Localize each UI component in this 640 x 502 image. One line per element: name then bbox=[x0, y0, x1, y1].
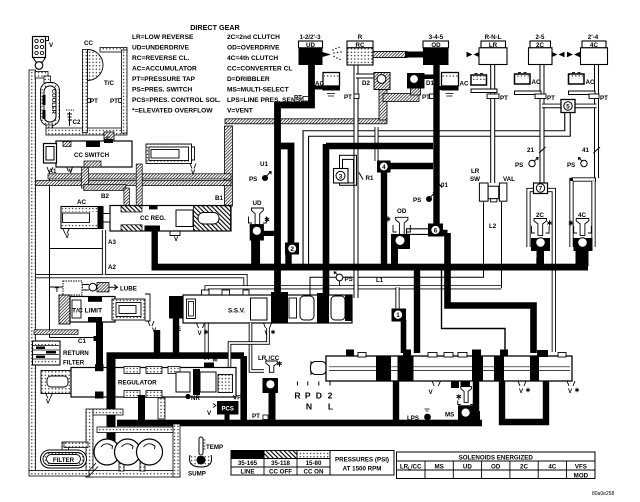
svg-text:R1: R1 bbox=[366, 175, 374, 182]
wire 6box to bar bbox=[440, 233, 448, 264]
valve manual (R P D 2 N L) bbox=[311, 350, 579, 397]
svg-text:CC OFF: CC OFF bbox=[269, 469, 292, 476]
svg-text:A2: A2 bbox=[108, 264, 116, 271]
svg-text:PT: PT bbox=[252, 413, 260, 420]
return filter bbox=[33, 341, 90, 367]
svg-text:RETURN: RETURN bbox=[63, 350, 89, 357]
loop below manual valve right bbox=[502, 381, 546, 422]
vent relief assembly top-left bbox=[33, 37, 55, 70]
svg-text:4C=4th CLUTCH: 4C=4th CLUTCH bbox=[227, 55, 278, 62]
legend left column bbox=[132, 34, 221, 115]
accumulator AC (4C) bbox=[569, 73, 596, 95]
tick 01 on OD line bbox=[437, 182, 442, 188]
wire 4C bracket bbox=[572, 178, 597, 247]
svg-text:3: 3 bbox=[339, 173, 343, 180]
rail junction5 west run to SSV-top channel bbox=[306, 113, 568, 264]
wire circled-1 drop to manual valve bbox=[395, 287, 399, 310]
pressure switch PS (2C) bbox=[515, 157, 539, 169]
svg-text:LRL/CC: LRL/CC bbox=[400, 463, 422, 470]
solenoid OD bbox=[386, 208, 411, 264]
pressure switch PS (OD, dot) bbox=[413, 192, 436, 204]
node PT (UD line) bbox=[294, 95, 302, 102]
solenoid UD bbox=[249, 200, 275, 264]
svg-text:T/C: T/C bbox=[104, 80, 114, 87]
wire OD main line bbox=[433, 65, 439, 229]
svg-text:OD=OVERDRIVE: OD=OVERDRIVE bbox=[227, 45, 280, 52]
svg-text:PRESSURES (PSI): PRESSURES (PSI) bbox=[335, 457, 389, 464]
svg-text:4C: 4C bbox=[548, 463, 556, 470]
svg-text:2: 2 bbox=[328, 391, 333, 401]
wire M spur bbox=[204, 357, 218, 371]
svg-text:7: 7 bbox=[539, 186, 543, 193]
svg-text:V=VENT: V=VENT bbox=[227, 108, 253, 115]
svg-text:R-N-L: R-N-L bbox=[485, 34, 502, 41]
svg-text:PT: PT bbox=[90, 98, 98, 105]
duct CC switch right drop bbox=[136, 164, 142, 206]
duct cross run under CC switch (upper) bbox=[48, 174, 231, 179]
wire UD line crossing bar to SSV bbox=[323, 264, 330, 296]
duct T/C left wall bbox=[83, 50, 88, 133]
duct suction bottom run bbox=[29, 471, 89, 477]
solenoid LR/CC bbox=[258, 355, 282, 420]
cooler bbox=[41, 83, 60, 131]
wire R1 loop bbox=[340, 155, 357, 185]
junction box 2 bbox=[285, 243, 299, 255]
svg-text:4C: 4C bbox=[578, 212, 586, 219]
svg-text:15-80: 15-80 bbox=[306, 460, 322, 467]
wire LR clutch feed bbox=[490, 65, 495, 184]
wire CCREG drop to bar bbox=[151, 229, 157, 264]
wire black RC-OD bbox=[405, 52, 423, 58]
duct CCREG B-run vertical bbox=[225, 126, 233, 206]
valve CC SWITCH bbox=[44, 139, 133, 175]
pressure switch PS (line, circle) bbox=[334, 271, 353, 286]
main pressure bar bbox=[152, 264, 589, 271]
svg-text:2: 2 bbox=[290, 246, 294, 253]
junction box 1 bbox=[392, 309, 407, 322]
svg-text:TEMP: TEMP bbox=[206, 444, 223, 451]
svg-text:B2: B2 bbox=[101, 193, 109, 200]
svg-text:LINE: LINE bbox=[240, 469, 254, 476]
svg-text:L2: L2 bbox=[489, 223, 497, 230]
svg-text:N: N bbox=[306, 402, 312, 412]
wire RC channel down bbox=[354, 65, 359, 298]
solenoid 4C bbox=[569, 212, 593, 266]
svg-text:PCS=PRES. CONTROL SOL.: PCS=PRES. CONTROL SOL. bbox=[132, 97, 221, 104]
valve CC SWITCH spring chamber bbox=[146, 144, 196, 176]
svg-text:CC REG.: CC REG. bbox=[140, 215, 166, 222]
svg-text:AC=ACCUMULATOR: AC=ACCUMULATOR bbox=[132, 66, 197, 73]
svg-text:D: D bbox=[316, 391, 322, 401]
node PT (LR line) bbox=[487, 94, 508, 102]
valve REGULATOR bbox=[41, 364, 236, 405]
svg-text:35-118: 35-118 bbox=[271, 460, 290, 467]
wire 4C to junction 5 bbox=[568, 104, 597, 109]
svg-text:2C: 2C bbox=[520, 463, 528, 470]
node PT (RC line) bbox=[344, 94, 359, 101]
tick 21 on 2C line bbox=[527, 147, 546, 154]
wire E2 gray elbow bar to manual valve bbox=[442, 270, 506, 353]
svg-text:D=DRIBBLER: D=DRIBBLER bbox=[227, 76, 270, 83]
valve LR switch bbox=[470, 168, 515, 202]
wire 2C bracket left bbox=[529, 190, 534, 247]
clutch RC reverse bbox=[347, 34, 373, 65]
wire A1/C1 thin links bbox=[50, 172, 98, 338]
check valve C2 bbox=[66, 110, 81, 126]
dribbler on 4C clutch bbox=[567, 52, 580, 57]
svg-text:2C=2nd CLUTCH: 2C=2nd CLUTCH bbox=[227, 34, 280, 41]
solenoids energized table bbox=[397, 452, 596, 479]
dribbler valve D2 bbox=[362, 73, 390, 90]
svg-text:C1: C1 bbox=[78, 338, 86, 345]
svg-text:CC SWITCH: CC SWITCH bbox=[74, 152, 110, 159]
thermometer TEMP bbox=[199, 437, 223, 455]
junction box 5 bbox=[561, 100, 575, 113]
wire LR valve down-channel to SSV bbox=[310, 202, 484, 296]
svg-text:U1: U1 bbox=[260, 161, 268, 168]
accumulator AC (2C) bbox=[515, 73, 542, 95]
svg-text:6: 6 bbox=[434, 228, 438, 235]
clutch LR R-N-L bbox=[479, 34, 507, 65]
wire upper cross (OD to SSV drop) bbox=[326, 144, 433, 264]
wire 2C solenoid drop to bar bbox=[536, 258, 543, 264]
svg-text:PT: PT bbox=[344, 94, 352, 101]
svg-text:SW: SW bbox=[470, 176, 480, 183]
lube relief bbox=[63, 281, 137, 295]
svg-text:FILTER: FILTER bbox=[63, 360, 85, 367]
svg-text:VAL: VAL bbox=[503, 176, 515, 183]
junction box 4 bbox=[377, 161, 391, 173]
solenoid MS bbox=[445, 381, 478, 424]
svg-text:2-5: 2-5 bbox=[536, 34, 546, 41]
svg-text:41: 41 bbox=[582, 147, 589, 154]
svg-text:PT: PT bbox=[294, 95, 302, 102]
wire 2C valve-feed 7box to manual valve bbox=[548, 190, 554, 352]
svg-text:VFS: VFS bbox=[575, 463, 587, 470]
clutch 4C 2'-4 bbox=[581, 34, 608, 65]
duct left main vertical bbox=[29, 70, 36, 471]
svg-text:PT=PRESSURE TAP: PT=PRESSURE TAP bbox=[132, 76, 196, 83]
solenoid PCS bbox=[207, 395, 241, 421]
duct main hatched run (CC REG to D2) bbox=[225, 119, 387, 124]
solenoid 2C bbox=[531, 212, 552, 266]
wire manual valve drops bbox=[393, 381, 399, 420]
svg-text:PCS: PCS bbox=[222, 407, 234, 413]
svg-text:AC: AC bbox=[586, 79, 595, 86]
dribbler on LR clutch bbox=[467, 52, 480, 57]
clutch UD 1-2/2'-3 bbox=[299, 34, 323, 65]
filter (suction) bbox=[41, 442, 89, 468]
svg-text:VF: VF bbox=[233, 395, 241, 402]
svg-text:MS: MS bbox=[434, 463, 443, 470]
accumulator AC (UD) bbox=[311, 73, 340, 97]
svg-text:PT: PT bbox=[422, 94, 430, 101]
svg-text:NR: NR bbox=[191, 395, 200, 402]
wire regulator to bottom bar bbox=[138, 395, 145, 420]
svg-text:PS: PS bbox=[249, 176, 257, 183]
svg-text:1: 1 bbox=[396, 312, 400, 319]
valve CC REG bbox=[110, 206, 231, 244]
mid distribution bar bbox=[107, 352, 245, 359]
wire bar up-stub left bbox=[154, 330, 160, 353]
svg-text:L1: L1 bbox=[376, 277, 384, 284]
torque converter T/C bbox=[88, 48, 128, 134]
svg-text:80a0e258: 80a0e258 bbox=[592, 491, 614, 497]
dribbler valve D1 bbox=[407, 73, 434, 89]
wire 4C clutch feed bbox=[594, 65, 599, 179]
svg-text:2C: 2C bbox=[536, 212, 544, 219]
svg-text:5: 5 bbox=[566, 104, 570, 111]
svg-text:B1: B1 bbox=[215, 195, 223, 202]
duct cooler return lower band bbox=[34, 330, 78, 335]
svg-text:*=ELEVATED OVERFLOW: *=ELEVATED OVERFLOW bbox=[132, 108, 213, 115]
svg-text:FILTER: FILTER bbox=[53, 457, 75, 464]
junction box 6 bbox=[428, 224, 443, 237]
svg-text:PT: PT bbox=[110, 98, 118, 105]
svg-text:AC: AC bbox=[77, 199, 86, 206]
svg-text:RC=REVERSE CL.: RC=REVERSE CL. bbox=[132, 55, 190, 62]
svg-text:SUMP: SUMP bbox=[188, 471, 206, 478]
svg-text:UD: UD bbox=[253, 200, 262, 207]
svg-text:AC: AC bbox=[532, 79, 541, 86]
svg-text:LR: LR bbox=[471, 168, 480, 175]
duct vent to cooler link bbox=[35, 72, 48, 79]
hatched pipe RC to OD bbox=[373, 52, 407, 58]
valve T/C LIMIT bbox=[59, 294, 157, 334]
node PT (OD line) bbox=[422, 94, 435, 101]
svg-text:SOLENOIDS ENERGIZED: SOLENOIDS ENERGIZED bbox=[459, 455, 534, 462]
svg-text:35-165: 35-165 bbox=[238, 460, 258, 467]
valve SSV body bbox=[169, 290, 352, 337]
svg-text:CC: CC bbox=[84, 40, 93, 47]
clutch 2C 2-5 bbox=[529, 34, 553, 65]
duct D1 foot bbox=[411, 87, 421, 95]
svg-text:A1: A1 bbox=[49, 168, 57, 175]
svg-text:PT: PT bbox=[600, 95, 608, 102]
duct D2-D1 link bbox=[383, 94, 419, 102]
wire 4box cross bbox=[384, 166, 433, 264]
svg-text:MS: MS bbox=[445, 412, 454, 419]
svg-text:PT: PT bbox=[547, 95, 555, 102]
wire E1 elbow bar to valve port bbox=[448, 270, 534, 353]
svg-text:A3: A3 bbox=[108, 239, 116, 246]
duct D2 drop bbox=[379, 88, 387, 120]
wire 2box to bar bbox=[285, 254, 291, 264]
svg-text:LR=LOW REVERSE: LR=LOW REVERSE bbox=[132, 34, 194, 41]
accumulator AC (OD) bbox=[435, 73, 469, 97]
wire bar right drop to PCS bbox=[240, 356, 247, 423]
svg-text:L: L bbox=[328, 402, 333, 412]
node PT (4C line) bbox=[589, 94, 608, 102]
wire A3 channel bbox=[102, 230, 106, 275]
svg-text:AC: AC bbox=[460, 81, 469, 88]
junction box 7 bbox=[534, 183, 548, 194]
wire 4C solenoid drop joins bar end bbox=[576, 251, 588, 266]
wire SSV to LR/CC link bbox=[251, 323, 265, 371]
rail L1 (M-channel east run) bbox=[207, 287, 501, 360]
svg-text:4: 4 bbox=[382, 164, 386, 171]
svg-text:CC=CONVERTER CL: CC=CONVERTER CL bbox=[227, 66, 292, 73]
selector position labels R P D 2 / N L bbox=[294, 382, 333, 412]
wire regulator to pump bbox=[107, 396, 116, 441]
svg-text:MOD: MOD bbox=[574, 472, 589, 479]
wire OD-ball to 6box channel bbox=[407, 229, 431, 235]
tick 41 on 4C line bbox=[582, 147, 600, 154]
svg-text:D1: D1 bbox=[426, 80, 434, 87]
wire RC channel crossing duct bbox=[354, 114, 359, 132]
wire D2-feed channel bbox=[375, 127, 379, 161]
wire V*-to-VF channel bbox=[230, 328, 269, 374]
duct cooler return run bbox=[46, 128, 127, 135]
svg-text:REGULATOR: REGULATOR bbox=[118, 380, 157, 387]
wire 2C clutch feed bbox=[540, 65, 545, 185]
wire bar drop to valve (x417) bbox=[414, 270, 420, 353]
svg-text:P: P bbox=[305, 391, 311, 401]
svg-text:R: R bbox=[294, 391, 301, 401]
rail A2 vent line (left long run) bbox=[34, 276, 246, 291]
svg-text:MS=MULTI-SELECT: MS=MULTI-SELECT bbox=[227, 87, 289, 94]
svg-text:01: 01 bbox=[441, 182, 448, 189]
duct cross run (lower) bbox=[34, 180, 231, 185]
sump pickup SUMP bbox=[188, 455, 212, 478]
accumulator AC (converter, large) bbox=[61, 199, 110, 240]
svg-text:OD: OD bbox=[397, 208, 407, 215]
svg-text:C2: C2 bbox=[73, 119, 81, 126]
svg-text:R: R bbox=[358, 34, 363, 41]
svg-text:M: M bbox=[213, 357, 218, 364]
pressure table bbox=[231, 451, 330, 476]
pump rotors bbox=[94, 439, 163, 465]
dribbler on UD clutch bbox=[323, 47, 342, 60]
svg-text:T: T bbox=[55, 287, 59, 294]
svg-text:UD: UD bbox=[463, 463, 472, 470]
wire UD-PT spur bbox=[303, 97, 309, 102]
clutch OD 3-4-5 bbox=[423, 34, 449, 65]
svg-text:S.S.V.: S.S.V. bbox=[228, 308, 245, 315]
duct B2 elbow bbox=[82, 167, 89, 188]
wire 5box to 2C line bbox=[542, 104, 568, 109]
svg-text:2'-4: 2'-4 bbox=[588, 34, 599, 41]
svg-text:AT 1500 RPM: AT 1500 RPM bbox=[343, 466, 382, 473]
pressure switch PS (4C) bbox=[567, 157, 587, 169]
node PT (bottom bar) bbox=[252, 413, 268, 420]
svg-text:3-4-5: 3-4-5 bbox=[429, 34, 444, 41]
svg-text:DIRECT GEAR: DIRECT GEAR bbox=[190, 23, 240, 32]
svg-text:PS: PS bbox=[413, 197, 421, 204]
junction box 3 + R1 bbox=[334, 169, 374, 184]
svg-text:T/C LIMIT: T/C LIMIT bbox=[72, 308, 103, 315]
svg-text:PS=PRES. SWITCH: PS=PRES. SWITCH bbox=[132, 87, 193, 94]
pressures note box bbox=[330, 451, 394, 476]
duct C connector TC to CC switch bbox=[104, 132, 114, 143]
svg-text:UD=UNDERDRIVE: UD=UNDERDRIVE bbox=[132, 45, 190, 52]
accumulator AC (LR) bbox=[471, 74, 497, 93]
sensor LPS bbox=[407, 409, 431, 422]
bottom pressure bar bbox=[117, 420, 482, 427]
node NR bbox=[185, 394, 200, 402]
node C1 bbox=[78, 336, 98, 345]
svg-text:PT: PT bbox=[500, 95, 508, 102]
svg-text:D2: D2 bbox=[362, 80, 370, 87]
svg-text:PS: PS bbox=[515, 162, 523, 169]
node PT (2C line) bbox=[535, 94, 555, 102]
svg-text:LUBE: LUBE bbox=[120, 286, 137, 293]
legend right column bbox=[227, 34, 310, 115]
svg-text:COOLER: COOLER bbox=[50, 89, 56, 115]
svg-text:CC ON: CC ON bbox=[304, 469, 324, 476]
wire UD main line bbox=[278, 65, 312, 296]
wire TC limit to regulator bbox=[96, 322, 103, 369]
svg-text:21: 21 bbox=[527, 147, 534, 154]
wire E drop bbox=[173, 318, 179, 356]
svg-text:OD: OD bbox=[491, 463, 501, 470]
svg-text:1-2/2'-3: 1-2/2'-3 bbox=[299, 34, 321, 41]
pressure switch PS (UD, dot) bbox=[249, 171, 272, 183]
svg-text:PS: PS bbox=[345, 276, 353, 283]
dribbler on 2C clutch bbox=[552, 52, 565, 57]
duct pump enclosure bbox=[86, 398, 180, 477]
svg-text:PS: PS bbox=[567, 162, 575, 169]
